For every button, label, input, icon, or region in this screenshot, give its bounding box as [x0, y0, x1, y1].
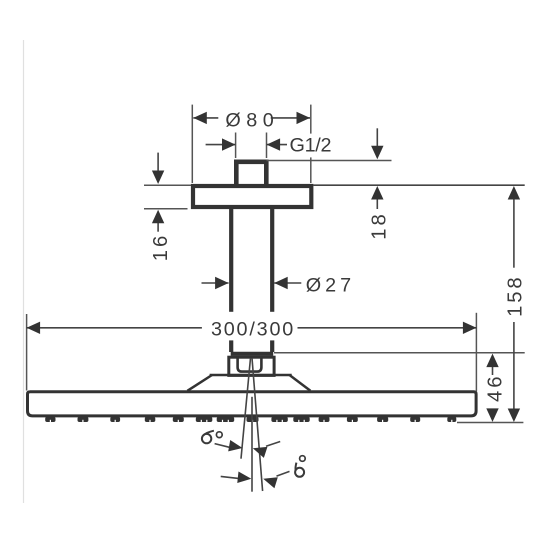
- dimension Ø27 line left: [202, 282, 229, 284]
- dimension Ø27 line right: [274, 282, 301, 284]
- angle 6 lower leader right: [277, 471, 290, 476]
- angle 6 upper leader right: [266, 442, 280, 447]
- dimension 158 lower shaft: [513, 322, 515, 410]
- dimension Ø80 extension line right: [310, 105, 312, 183]
- dimension 158 up arrow: [513, 199, 515, 268]
- dimension G1/2 extension line left: [235, 133, 237, 159]
- dimension 18 up arrow: [376, 199, 378, 209]
- svg-text:Ø80: Ø80: [225, 110, 279, 132]
- svg-text:300/300: 300/300: [211, 318, 295, 340]
- cone trapezoid right side: [290, 375, 311, 391]
- faint page border line: [23, 40, 25, 503]
- svg-text:158: 158: [504, 275, 526, 317]
- spray nozzle holder: [238, 356, 262, 372]
- dimension 46 up arrow: [492, 366, 494, 375]
- spray nozzles underside: [45, 417, 456, 422]
- dimension 300/300 extension line left: [26, 314, 28, 391]
- nut lower reference line right: [274, 352, 525, 354]
- plate bottom reference line left: [144, 208, 188, 210]
- angle 6 lower leader left: [221, 476, 239, 478]
- dimension 18 down arrow: [376, 128, 378, 147]
- spray axis right line: [252, 358, 263, 491]
- dimension Ø80 extension line left: [191, 105, 193, 183]
- cone trapezoid left side: [187, 375, 212, 391]
- dimension G1/2 line left: [206, 144, 236, 146]
- white mask under 300/300 text: [206, 312, 299, 341]
- pipe bottom bar: [231, 352, 274, 356]
- dimension 300/300 extension line right: [475, 313, 477, 392]
- head bottom reference line: [457, 422, 523, 424]
- spray axis center line: [251, 397, 253, 492]
- white mask under G1/2 label: [289, 134, 330, 158]
- spray axis left line: [241, 358, 251, 459]
- plate top reference line left: [144, 184, 191, 186]
- dimension Ø80 line left: [193, 117, 218, 119]
- dimension 46 down arrow: [486, 408, 498, 422]
- pipe left wall: [229, 207, 233, 352]
- nut top reference line: [267, 160, 392, 162]
- label 6 deg upper: [202, 434, 211, 443]
- dimension 300/300 line left: [27, 327, 202, 329]
- plate top reference line right: [313, 184, 524, 186]
- dimension 16 up arrow: [157, 222, 159, 232]
- svg-text:Ø27: Ø27: [306, 275, 355, 297]
- svg-text:16: 16: [150, 233, 172, 262]
- svg-text:18: 18: [368, 211, 390, 240]
- angle 6 upper leader left: [215, 444, 230, 448]
- dimension Ø80 line right: [271, 117, 310, 119]
- cone trapezoid top edge: [210, 374, 292, 377]
- dimension G1/2 line right: [267, 144, 287, 146]
- svg-text:46: 46: [485, 373, 507, 402]
- dimension G1/2 extension line right: [266, 133, 268, 159]
- dimension 16 down arrow: [157, 153, 159, 172]
- connection nut (top, G1/2): [236, 162, 266, 187]
- dimension 300/300 line right: [298, 327, 477, 329]
- lower flange box: [229, 357, 274, 375]
- label 6 deg lower: [295, 468, 304, 477]
- ceiling plate (escutcheon): [193, 186, 311, 207]
- shower head body: [28, 392, 477, 416]
- svg-text:G1/2: G1/2: [290, 135, 332, 157]
- pipe right wall: [270, 207, 274, 352]
